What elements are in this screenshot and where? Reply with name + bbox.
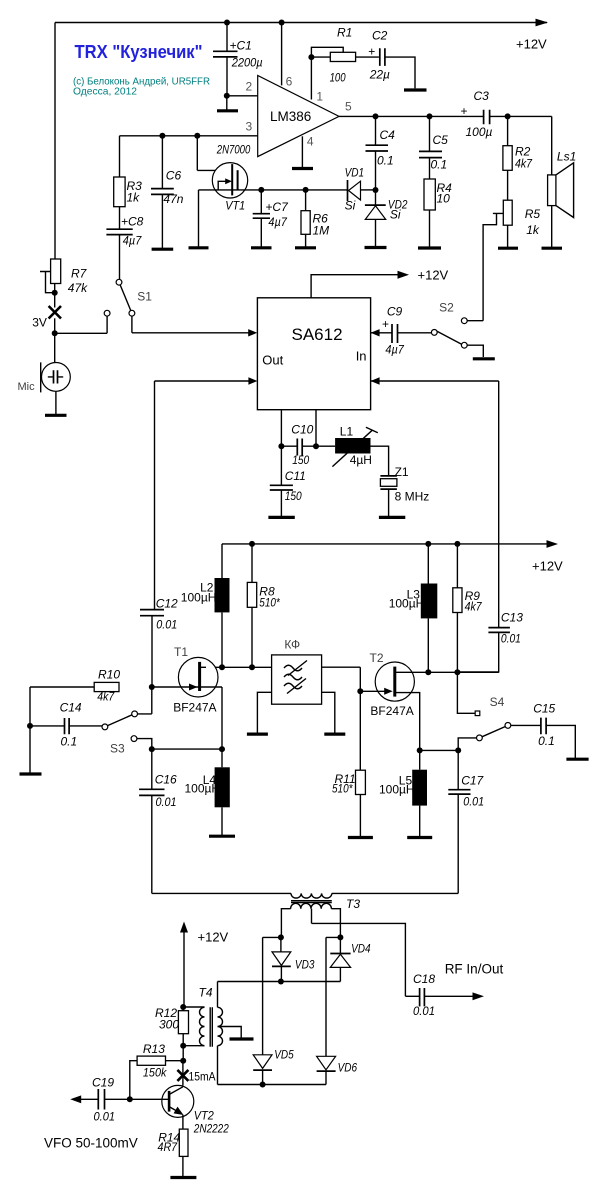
diode VD3 <box>272 937 315 981</box>
node pin6 rail junction <box>279 20 285 26</box>
svg-text:C4: C4 <box>380 128 396 142</box>
ground L5 <box>407 836 432 839</box>
svg-text:4µH: 4µH <box>350 453 372 467</box>
svg-text:C16: C16 <box>155 773 177 787</box>
resistor R13 150k <box>130 1042 186 1099</box>
microphone Mic <box>18 333 71 415</box>
IC SA612 <box>257 298 370 410</box>
svg-text:VD6: VD6 <box>338 1061 358 1075</box>
wire VD5 branch <box>263 937 281 1054</box>
svg-text:+12V: +12V <box>516 37 547 52</box>
svg-text:L1: L1 <box>340 425 354 439</box>
transformer T3 <box>152 893 458 937</box>
wire +12V arrow VT2 <box>180 922 229 1008</box>
svg-text:0.01: 0.01 <box>463 795 484 809</box>
wire ring top net <box>218 979 341 985</box>
diode VD1 Si <box>345 166 365 213</box>
svg-text:VT1: VT1 <box>225 199 245 213</box>
capacitor C10 150 <box>281 423 316 468</box>
svg-text:R13: R13 <box>143 1042 165 1056</box>
switch S3 <box>102 687 152 756</box>
capacitor C7 4µ7 <box>253 190 289 248</box>
svg-text:T3: T3 <box>346 897 360 911</box>
svg-text:C12: C12 <box>156 597 178 611</box>
svg-text:1M: 1M <box>313 224 330 238</box>
svg-text:C10: C10 <box>291 423 313 437</box>
svg-text:0.1: 0.1 <box>538 734 555 748</box>
wire C2 to ground <box>385 57 415 88</box>
resistor R8 510* <box>247 544 280 667</box>
svg-text:150k: 150k <box>143 1066 167 1080</box>
svg-text:47n: 47n <box>163 192 183 206</box>
wire 3V node <box>52 316 107 336</box>
wire SA612 lower out pin <box>155 377 258 384</box>
node T2 gate junction <box>357 688 363 694</box>
svg-text:R5: R5 <box>525 207 541 221</box>
node VD4 top <box>337 934 343 940</box>
ground R6 <box>295 246 316 249</box>
svg-text:C13: C13 <box>501 610 523 624</box>
diode VD6 <box>317 1056 358 1084</box>
svg-text:0.1: 0.1 <box>377 154 394 168</box>
svg-text:VFO 50-100mV: VFO 50-100mV <box>44 1136 138 1151</box>
wire T3 tap to C18 <box>312 923 406 996</box>
ground C7 <box>251 246 272 249</box>
node pin2/C1 junction <box>224 93 230 99</box>
switch S2 <box>431 301 483 358</box>
svg-text:Ls1: Ls1 <box>557 150 576 164</box>
svg-text:1: 1 <box>316 89 323 103</box>
svg-text:0.1: 0.1 <box>431 158 448 172</box>
node C19 base junction <box>127 1096 133 1102</box>
svg-text:C5: C5 <box>433 133 449 147</box>
svg-text:C17: C17 <box>461 774 484 788</box>
svg-text:LM386: LM386 <box>270 109 311 124</box>
capacitor C9 4µ7 <box>382 305 431 357</box>
svg-text:SA612: SA612 <box>292 325 343 344</box>
svg-text:RF In/Out: RF In/Out <box>445 962 504 977</box>
ground VT1 source <box>189 246 209 249</box>
svg-text:VD4: VD4 <box>351 942 371 956</box>
resistor R9 4k7 <box>453 544 483 672</box>
ground R14 <box>170 1176 196 1179</box>
svg-text:In: In <box>356 349 367 364</box>
svg-text:T1: T1 <box>174 645 188 659</box>
svg-text:100µ: 100µ <box>466 125 493 139</box>
svg-text:Si: Si <box>390 207 401 221</box>
op-amp LM386 <box>258 76 339 157</box>
wire SA612 lower in pin <box>371 377 499 384</box>
svg-text:VT2: VT2 <box>194 1109 214 1123</box>
svg-text:150: 150 <box>285 489 302 503</box>
resistor R10 4k7 <box>30 668 120 726</box>
svg-text:S2: S2 <box>439 301 454 315</box>
node C1 rail junction <box>224 20 230 26</box>
inductor L2 100µH <box>181 544 230 667</box>
ground T4 tap <box>230 1037 254 1040</box>
ground S2 <box>473 357 495 360</box>
ground КФ left <box>247 692 272 734</box>
ground Z1 <box>379 516 405 519</box>
ground КФ right <box>322 692 346 734</box>
svg-text:2N2222: 2N2222 <box>193 1122 229 1136</box>
ground R4 <box>418 246 441 249</box>
wire VD6 branch <box>326 937 340 1056</box>
node R12 top <box>180 1004 186 1010</box>
svg-text:2: 2 <box>246 80 253 94</box>
svg-text:100µH: 100µH <box>185 782 221 796</box>
svg-text:Z1: Z1 <box>395 465 409 479</box>
svg-text:C2: C2 <box>372 29 388 43</box>
svg-text:VD3: VD3 <box>295 958 315 972</box>
diode VD2 Si <box>365 190 408 248</box>
capacitor C11 150 <box>270 446 306 517</box>
ground R11 <box>348 836 373 839</box>
wire pin 5 output <box>339 100 552 117</box>
wire SA612 +12V pin <box>311 268 448 298</box>
capacitor C17 0.01 <box>448 750 484 893</box>
wire pin 3 net <box>120 120 258 136</box>
ground C11 <box>268 516 294 519</box>
ground C2 <box>404 88 427 91</box>
wire +12V top rail <box>55 19 548 52</box>
speaker Ls1 <box>548 116 577 248</box>
diode VD5 <box>253 1048 294 1085</box>
wire +12V rail 2 <box>222 540 563 573</box>
test point X 15mA <box>177 1061 215 1086</box>
node R9 rail <box>454 541 460 547</box>
transformer T4 <box>183 982 241 1085</box>
test point X 3V <box>32 306 61 330</box>
svg-text:4k7: 4k7 <box>97 690 115 704</box>
node R8 rail <box>249 541 255 547</box>
wire SA612 upper in pin <box>371 329 392 336</box>
svg-text:3V: 3V <box>32 316 47 330</box>
svg-text:0.01: 0.01 <box>501 632 521 646</box>
svg-text:10: 10 <box>437 192 451 206</box>
node C6 junction <box>159 133 165 139</box>
node R2 <box>505 113 511 119</box>
svg-text:4k7: 4k7 <box>465 600 483 614</box>
ground R5 <box>498 247 518 250</box>
svg-text:T2: T2 <box>370 651 384 665</box>
svg-text:0.01: 0.01 <box>156 618 177 632</box>
diode VD4 <box>330 937 371 981</box>
svg-text:100: 100 <box>330 71 346 85</box>
svg-text:0.1: 0.1 <box>61 735 78 749</box>
pin 6 <box>282 23 293 89</box>
svg-text:6: 6 <box>286 75 293 89</box>
ground VD2 <box>365 246 387 249</box>
svg-text:4µ7: 4µ7 <box>268 215 288 229</box>
svg-text:S4: S4 <box>490 695 505 709</box>
rheostat R7 47k <box>40 23 88 308</box>
capacitor C6 47n <box>151 136 184 249</box>
inductor L1 4µH <box>316 425 389 476</box>
capacitor C18 0.01 <box>405 972 484 1018</box>
node C5 <box>427 113 433 119</box>
svg-text:4R7: 4R7 <box>158 1140 179 1154</box>
svg-text:300: 300 <box>159 1018 179 1032</box>
svg-text:C11: C11 <box>285 469 306 483</box>
svg-text:0.01: 0.01 <box>94 1110 116 1124</box>
transistor T2 BF247A <box>360 651 419 750</box>
svg-text:C15: C15 <box>533 702 555 716</box>
node VT1 gate junction <box>194 133 200 139</box>
ground Mic <box>45 414 67 417</box>
ground C14 <box>20 726 42 774</box>
svg-text:R10: R10 <box>98 668 120 682</box>
wire SA612 bottom pins <box>278 410 319 450</box>
filter КФ <box>272 638 322 705</box>
svg-text:0.01: 0.01 <box>413 1004 435 1018</box>
svg-text:C3: C3 <box>474 89 490 103</box>
pin 1 wire <box>308 47 343 103</box>
node C7 <box>258 187 264 193</box>
svg-text:КФ: КФ <box>284 638 300 652</box>
capacitor C19 0.01 <box>70 1076 130 1124</box>
node L5/C17 wire <box>417 747 462 753</box>
resistor R12 300 <box>155 1006 189 1046</box>
svg-text:C19: C19 <box>92 1076 114 1090</box>
inductor L4 100µH <box>185 749 230 836</box>
resistor R3 1k <box>114 136 142 207</box>
svg-text:BF247A: BF247A <box>173 701 216 715</box>
capacitor C1 2200µ <box>213 23 263 96</box>
svg-text:R7: R7 <box>71 267 88 281</box>
svg-text:2200µ: 2200µ <box>231 56 263 70</box>
capacitor C15 0.1 <box>511 702 576 760</box>
wire T2 drain net <box>395 669 499 675</box>
wire S1 to SA612 out <box>132 316 257 336</box>
inductor L5 100µH <box>379 750 427 837</box>
svg-text:S3: S3 <box>110 742 125 756</box>
svg-text:150: 150 <box>292 453 309 467</box>
switch S4 <box>457 672 510 750</box>
node R6 <box>303 187 309 193</box>
wire ring bottom net <box>218 1082 327 1088</box>
svg-text:+: + <box>382 317 389 331</box>
node T1 gate junction <box>149 684 155 690</box>
transistor VT1 2N7000 <box>197 136 347 248</box>
svg-text:Mic: Mic <box>18 381 36 393</box>
svg-text:VD5: VD5 <box>274 1048 294 1062</box>
resistor R4 10 <box>424 179 452 248</box>
capacitor C4 0.1 <box>366 116 396 190</box>
wire R1 to C2 <box>356 56 379 58</box>
node C16 junction <box>149 746 155 752</box>
wire КФ right port <box>322 667 361 691</box>
wire pin 2 <box>227 80 258 96</box>
wire S3 to L4 <box>152 746 225 752</box>
svg-text:100µH: 100µH <box>389 597 425 611</box>
crystal Z1 8 MHz <box>380 465 429 517</box>
capacitor C8 4µ7 <box>106 207 143 280</box>
svg-text:+12V: +12V <box>532 559 563 574</box>
svg-text:5: 5 <box>345 100 352 114</box>
svg-text:8 MHz: 8 MHz <box>395 489 430 503</box>
svg-text:3: 3 <box>246 120 253 134</box>
svg-text:100µH: 100µH <box>379 783 415 797</box>
node C4 <box>373 113 379 119</box>
svg-text:4: 4 <box>307 135 314 149</box>
svg-text:0.01: 0.01 <box>156 795 177 809</box>
wire SA612 in to C13 <box>498 381 500 627</box>
transistor VT2 2N2222 <box>130 1085 229 1135</box>
svg-text:+C8: +C8 <box>121 215 144 229</box>
svg-text:+12V: +12V <box>198 930 229 945</box>
svg-text:Out: Out <box>262 353 283 368</box>
svg-text:C14: C14 <box>60 701 82 715</box>
svg-text:+: + <box>368 45 375 59</box>
ground C6 <box>152 248 174 251</box>
resistor R6 1M <box>301 190 329 248</box>
resistor R11 510* <box>332 691 365 837</box>
svg-text:R1: R1 <box>337 26 352 40</box>
svg-text:15mA: 15mA <box>189 1070 216 1084</box>
node VD2/C4 junction <box>361 187 379 193</box>
ground under C1 <box>217 96 238 111</box>
capacitor C13 0.01 <box>457 610 523 672</box>
node R12 bottom <box>180 1043 186 1049</box>
svg-text:+: + <box>461 104 468 118</box>
capacitor C5 0.1 <box>419 116 448 179</box>
capacitor C16 0.01 <box>139 749 177 893</box>
svg-text:1k: 1k <box>526 223 540 237</box>
pin 4 ground <box>292 135 314 169</box>
capacitor C3 100µ <box>461 89 493 139</box>
node C14 left <box>27 723 33 729</box>
ground C15 <box>566 758 588 761</box>
node VD3 top <box>278 934 284 940</box>
svg-text:1k: 1k <box>127 191 141 205</box>
potentiometer R5 1k <box>483 200 540 321</box>
svg-text:4µ7: 4µ7 <box>385 343 405 357</box>
svg-text:C18: C18 <box>413 972 435 986</box>
transistor T1 BF247A <box>152 645 222 749</box>
svg-text:TRX "Кузнечик": TRX "Кузнечик" <box>75 42 203 62</box>
resistor R1 100 <box>330 26 356 85</box>
node L3 rail <box>425 541 431 547</box>
svg-text:22µ: 22µ <box>369 68 390 82</box>
switch S1 <box>104 279 152 316</box>
node R7 bottom <box>52 290 58 296</box>
svg-text:S1: S1 <box>137 290 152 304</box>
resistor R14 4R7 <box>158 1129 189 1177</box>
inductor L3 100µH <box>389 544 438 672</box>
svg-text:C9: C9 <box>387 305 403 319</box>
svg-text:T4: T4 <box>199 986 213 1000</box>
svg-text:510*: 510* <box>332 782 353 796</box>
svg-text:+C1: +C1 <box>230 39 252 53</box>
capacitor C12 0.01 <box>140 381 178 687</box>
svg-text:510*: 510* <box>259 596 280 610</box>
resistor R2 4k7 <box>503 116 533 200</box>
capacitor C14 0.1 <box>30 701 102 749</box>
svg-text:Одесса, 2012: Одесса, 2012 <box>73 86 137 98</box>
svg-text:VD1: VD1 <box>345 166 365 180</box>
svg-text:47k: 47k <box>68 281 88 295</box>
svg-text:BF247A: BF247A <box>370 704 413 718</box>
svg-text:4µ7: 4µ7 <box>123 234 143 248</box>
ground L4 <box>209 835 235 838</box>
svg-text:100µH: 100µH <box>181 591 217 605</box>
capacitor C2 22µ <box>368 29 390 82</box>
svg-text:+12V: +12V <box>418 268 449 283</box>
wire T1 drain net <box>200 664 272 670</box>
ground Ls1 <box>542 247 563 250</box>
svg-text:4k7: 4k7 <box>515 157 533 171</box>
svg-text:+C7: +C7 <box>265 200 289 214</box>
svg-text:C6: C6 <box>166 169 182 183</box>
svg-text:Si: Si <box>345 199 356 213</box>
svg-text:2N7000: 2N7000 <box>216 143 251 157</box>
